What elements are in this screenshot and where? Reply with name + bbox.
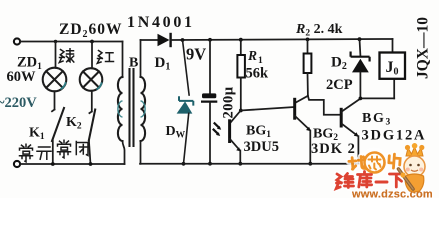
wire capacitor top lead (209, 40, 211, 94)
transistor BG2 emitter with arrow (295, 116, 311, 131)
svg-text:1: 1 (258, 56, 263, 66)
wire node D2/relay/BG3 collector (360, 97, 394, 99)
wire secondary top lead (140, 40, 142, 77)
svg-text:JQX—10: JQX—10 (415, 17, 432, 79)
watermark wei char red (336, 174, 353, 189)
junction K1-bus (51, 162, 55, 166)
svg-text:R: R (247, 48, 257, 63)
junction node BG1 collector (239, 109, 243, 113)
wire D2 top lead (359, 39, 362, 55)
wire lamp ZD2 top lead (91, 42, 93, 69)
label red CJK hong (97, 51, 113, 64)
junction K2-bus (89, 162, 93, 166)
wire bottom bus 220V (20, 163, 125, 165)
wire rail corner to relay top (392, 39, 394, 53)
svg-text:3DK 2: 3DK 2 (311, 141, 356, 157)
wire Dw bottom lead (184, 113, 189, 164)
svg-text:9V: 9V (186, 45, 206, 64)
svg-text:3DG12A: 3DG12A (362, 128, 427, 144)
junction BG1-ground rail (238, 162, 242, 166)
wire R2 top lead (307, 39, 309, 53)
junction BG2-ground rail (308, 162, 312, 166)
wire BG2 collector to BG3 base staircase (308, 96, 340, 115)
junction cap-ground rail (208, 162, 212, 166)
TRANSFORMER B (118, 40, 145, 164)
wire BG1 emitter to ground (239, 151, 241, 164)
wire capacitor bottom lead (209, 103, 211, 164)
light arrows into BG1 (213, 123, 221, 136)
diode D1 1N4001 (158, 33, 171, 47)
svg-text:3DU5: 3DU5 (244, 139, 279, 155)
wire top bus 220V (20, 41, 123, 43)
RIGHT SECTION (140, 33, 405, 166)
switch K1 blade (normally open) (52, 108, 64, 141)
wire top rail to D1 (141, 39, 158, 41)
SECTION LEFT (14, 38, 125, 167)
watermark zhao char orange (349, 156, 367, 169)
lamp ZD2 red (80, 68, 103, 91)
svg-text:2CP: 2CP (326, 77, 353, 93)
svg-text:56k: 56k (246, 66, 270, 82)
transformer B secondary winding (141, 77, 146, 141)
junction rail-D2 (358, 37, 362, 41)
transformer primary winding teal tint (118, 101, 123, 117)
wire primary top lead (122, 42, 124, 78)
wire lamp ZD1 top lead (55, 42, 57, 68)
junction rail-R1 (239, 38, 243, 42)
terminal input top (14, 38, 20, 44)
resistor R2 2.4k (304, 54, 312, 74)
watermark mascot (399, 143, 426, 192)
capacitor 200u electrolytic (201, 93, 217, 101)
transistor BG2 base bar (293, 98, 296, 120)
lamp ZD1 green (43, 68, 67, 92)
svg-text:200µ: 200µ (221, 86, 237, 118)
wire Dw top lead (183, 40, 190, 96)
transistor BG1 base bar (228, 119, 231, 143)
junction Dw-ground rail (182, 162, 186, 166)
wire R2 bottom lead (307, 73, 309, 96)
watermark xin char in ring (369, 157, 381, 170)
junction rail-R2 (306, 38, 310, 42)
wire secondary bottom lead (140, 141, 142, 164)
relay coil J0 box (380, 53, 406, 79)
diode D2 2CP (351, 52, 370, 73)
watermark pian char orange (388, 154, 400, 169)
wire D2 bottom lead (359, 72, 361, 98)
transistor BG3 collector stroke (342, 99, 360, 112)
watermark ku char red (358, 172, 372, 188)
junction rail-cap (208, 38, 212, 42)
wire top rail D1 to relay corner (171, 39, 393, 40)
transformer B primary winding (118, 77, 123, 141)
wire relay bottom lead (393, 79, 395, 98)
transistor BG3 emitter with arrow (342, 124, 359, 137)
svg-text:B: B (129, 56, 138, 71)
wire R1 bottom lead (240, 78, 242, 111)
transistor BG1 collector stroke (230, 111, 240, 123)
transformer B core (130, 69, 134, 146)
wire lamp ZD2 bottom lead to K2 contact (89, 91, 91, 113)
watermark circle ring (365, 153, 385, 173)
switch K2 blade (normally closed) (89, 110, 95, 141)
transformer secondary winding teal tint (141, 101, 146, 117)
terminal input bottom (14, 161, 20, 167)
svg-text:ZD260W: ZD260W (59, 21, 123, 40)
junction bus-lamp2 (90, 40, 94, 44)
WATERMARK (336, 143, 433, 201)
wire primary bottom lead (123, 141, 125, 164)
transistor BG2 collector stroke (295, 96, 308, 103)
wire ground rail (140, 163, 359, 165)
wire R1 top lead (240, 40, 242, 55)
resistor R1 56k (237, 55, 245, 78)
watermark yi char red (376, 181, 387, 184)
svg-text:1N4001: 1N4001 (127, 14, 195, 31)
svg-text:R2 2. 4k: R2 2. 4k (295, 22, 343, 39)
label green CJK lv (59, 49, 74, 63)
zener diode Dw (179, 96, 194, 112)
label CJK chang-bi (K2 normally closed) (58, 140, 89, 158)
svg-text:60W: 60W (7, 69, 37, 85)
transistor BG1 emitter with arrow (230, 139, 241, 151)
svg-text:~220V: ~220V (0, 95, 37, 111)
wire K1 to bottom bus (52, 141, 54, 165)
junction rail-Dw (181, 38, 185, 42)
wire BG2 emitter to ground (309, 131, 311, 164)
wire lamp ZD1 bottom lead to K1 contact (52, 91, 55, 111)
transistor BG3 base bar (340, 108, 343, 128)
watermark halo pass (336, 151, 403, 189)
label CJK chang-kai (K1 normally open) (20, 144, 52, 162)
wire BG1 collector to BG2 base (241, 107, 294, 111)
wire K2 to bottom bus (89, 140, 91, 164)
junction bus-lamp1 (54, 40, 57, 43)
watermark xia char red (390, 174, 404, 187)
junction D2-node (359, 97, 363, 101)
wire BG3 emitter to ground (357, 136, 359, 162)
